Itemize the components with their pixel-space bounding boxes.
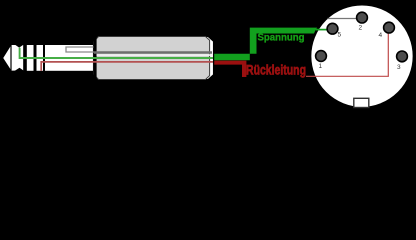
svg-text:Spannung: Spannung [258,32,305,44]
svg-text:3: 3 [397,64,401,71]
svg-text:Rückleitung: Rückleitung [246,62,306,78]
svg-text:1: 1 [319,63,323,70]
svg-text:2: 2 [359,25,363,32]
svg-text:4: 4 [379,32,383,39]
svg-text:5: 5 [338,32,342,39]
